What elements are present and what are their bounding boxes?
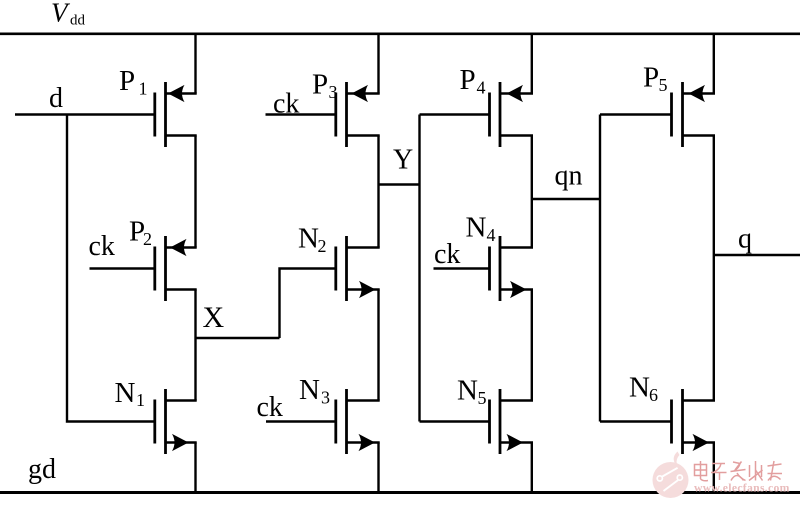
svg-text:gd: gd — [28, 454, 56, 485]
svg-text:ck: ck — [273, 89, 299, 120]
label P2 — [129, 216, 152, 250]
svg-text:6: 6 — [649, 385, 658, 405]
svg-text:P: P — [460, 64, 476, 96]
transistor N6 — [672, 389, 716, 454]
svg-text:P: P — [119, 65, 135, 97]
wire N4 source to N5 drain — [531, 290, 533, 401]
svg-text:5: 5 — [659, 75, 668, 95]
wire node X horizontal — [196, 337, 280, 339]
wire node Y horizontal — [379, 183, 420, 185]
transistor P2 — [155, 236, 197, 301]
label P3 — [312, 69, 338, 103]
svg-text:3: 3 — [321, 388, 330, 408]
wire N1 source to ground — [194, 443, 196, 493]
transistor N2 — [336, 236, 380, 301]
wire Vdd to P5 source — [713, 34, 715, 94]
ground rail gd — [0, 491, 800, 494]
wire node X up to N2 gate — [280, 269, 336, 339]
svg-text:4: 4 — [487, 225, 496, 245]
svg-text:N: N — [457, 375, 478, 407]
wire P3 drain to N2 drain — [377, 136, 379, 248]
wire Y to N5 gate — [420, 420, 490, 422]
transistor P1 — [155, 82, 197, 147]
svg-text:N: N — [299, 374, 320, 406]
transistor P3 — [336, 82, 380, 147]
wire ck to N4 gate — [434, 267, 490, 269]
svg-text:1: 1 — [136, 390, 145, 410]
wire ck to N3 gate — [266, 420, 336, 422]
svg-text:X: X — [203, 301, 225, 334]
svg-text:ck: ck — [257, 392, 283, 423]
wire Vdd to P3 source — [377, 34, 379, 94]
wire node Y vertical to P4 and N5 gates — [418, 115, 420, 422]
transistor P4 — [490, 82, 534, 147]
wire P2 drain to N1 drain — [194, 290, 196, 401]
label P4 — [460, 64, 486, 98]
wire node qn horizontal — [532, 198, 600, 200]
watermark logo circle — [653, 452, 689, 499]
wire N5 source to ground — [531, 443, 533, 493]
svg-text:dd: dd — [70, 13, 86, 29]
wire Vdd to P1 source — [194, 34, 196, 94]
watermark text 电子发烧友 (drawn strokes) — [695, 461, 783, 481]
svg-text:N: N — [298, 223, 319, 255]
wire qn to N6 gate — [600, 420, 672, 422]
transistor N1 — [155, 389, 197, 454]
label N1 — [115, 377, 146, 410]
transistor P5 — [672, 82, 716, 147]
label P1 — [119, 65, 148, 99]
wire q output — [714, 254, 800, 256]
svg-text:Y: Y — [393, 145, 413, 176]
svg-text:V: V — [51, 0, 71, 28]
wire d input — [15, 113, 155, 115]
svg-text:d: d — [49, 83, 63, 114]
svg-text:5: 5 — [478, 388, 487, 408]
wire P5 drain to N6 drain — [713, 136, 715, 401]
svg-text:2: 2 — [143, 229, 152, 249]
wire N3 source to ground — [377, 443, 379, 493]
wire d branch down to N1 gate — [67, 115, 155, 422]
svg-text:q: q — [738, 224, 752, 255]
wire N6 source to ground — [713, 443, 715, 493]
wire node qn vertical to P5 and N6 gates — [599, 115, 601, 422]
transistor N4 — [490, 236, 534, 301]
wire P4 drain to N4 drain — [531, 136, 533, 248]
label N5 — [457, 375, 487, 409]
wire N2 source to N3 drain — [377, 290, 379, 401]
svg-text:www.elecfans.com: www.elecfans.com — [694, 482, 790, 495]
svg-text:2: 2 — [318, 236, 327, 256]
svg-text:3: 3 — [329, 82, 338, 102]
transistor N5 — [490, 389, 534, 454]
svg-text:ck: ck — [89, 231, 115, 262]
wire Y to P4 gate — [420, 113, 490, 115]
label Vdd — [51, 0, 86, 29]
transistor N3 — [336, 389, 380, 454]
svg-text:N: N — [466, 212, 487, 244]
label N3 — [299, 374, 330, 408]
svg-text:1: 1 — [139, 79, 148, 99]
wire qn to P5 gate — [600, 113, 672, 115]
svg-text:N: N — [115, 377, 136, 409]
svg-text:4: 4 — [477, 78, 486, 98]
wire ck to P2 gate — [90, 267, 155, 269]
svg-text:P: P — [643, 62, 659, 94]
label N6 — [629, 372, 658, 406]
wire Vdd to P4 source — [531, 34, 533, 94]
label N2 — [298, 223, 327, 257]
label N4 — [466, 212, 496, 246]
Vdd power rail — [0, 32, 800, 35]
svg-text:ck: ck — [434, 239, 460, 270]
svg-text:P: P — [312, 69, 328, 101]
svg-text:qn: qn — [555, 161, 583, 192]
wire P1 drain to P2 source — [194, 136, 196, 248]
wire ck to P3 gate — [266, 113, 336, 115]
label P5 — [643, 62, 668, 96]
svg-text:N: N — [629, 372, 650, 404]
